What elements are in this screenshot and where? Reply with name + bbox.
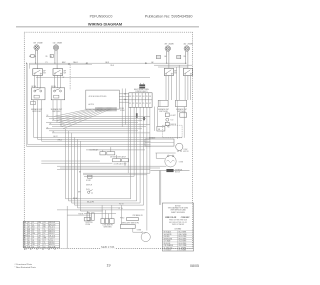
svg-text:SWITCH LF: SWITCH LF bbox=[52, 111, 60, 113]
infinite switch LF bbox=[53, 69, 63, 76]
svg-text:MOTOR: MOTOR bbox=[183, 151, 188, 153]
svg-text:RD: RD bbox=[46, 56, 48, 58]
wires bus to bottom left bbox=[66, 129, 81, 211]
svg-text:P6: P6 bbox=[149, 96, 151, 98]
svg-text:WH-10: WH-10 bbox=[58, 140, 63, 142]
parts table text bbox=[24, 221, 56, 248]
svg-text:P2: P2 bbox=[133, 103, 135, 105]
wire leads of LF bbox=[54, 50, 56, 54]
switch center B bbox=[107, 152, 115, 155]
terminal block dark bbox=[166, 169, 173, 172]
svg-text:RD-8: RD-8 bbox=[111, 65, 115, 67]
horizontal wires lower band bbox=[41, 161, 166, 176]
EOC terminal strip bbox=[129, 93, 152, 108]
svg-text:#40: #40 bbox=[53, 42, 56, 44]
svg-text:18: 18 bbox=[24, 242, 26, 244]
svg-text:RD RED: RD RED bbox=[164, 236, 171, 238]
svg-text:18: 18 bbox=[24, 238, 26, 240]
svg-text:# Functional Parts: # Functional Parts bbox=[15, 263, 34, 266]
svg-text:BK-8: BK-8 bbox=[106, 62, 110, 64]
wire leads of RF bbox=[185, 51, 187, 55]
door lock motor symbol above EOC bbox=[139, 84, 145, 88]
door plug component bbox=[88, 175, 93, 178]
svg-text:#39: #39 bbox=[164, 43, 167, 45]
svg-text:SWITCHES: SWITCHES bbox=[104, 227, 112, 229]
switch lower part RR bbox=[158, 100, 168, 106]
svg-text:RD-3 WIRE: RD-3 WIRE bbox=[179, 236, 187, 238]
relay box lower bbox=[120, 225, 135, 229]
svg-text:F2: F2 bbox=[54, 249, 56, 251]
svg-text:VT: VT bbox=[24, 240, 26, 242]
legend table bbox=[162, 231, 193, 251]
svg-text:12: 12 bbox=[32, 231, 34, 233]
switch lower part RF bbox=[175, 100, 186, 106]
svg-text:VT-9 WIRE: VT-9 WIRE bbox=[179, 250, 187, 252]
wires center mid-bottom bbox=[28, 144, 151, 146]
vertical wire into relay box lower bbox=[121, 205, 123, 224]
wire LF leads to bus bbox=[54, 54, 56, 63]
wire motor area bbox=[156, 152, 176, 154]
svg-text:P24 BK: P24 BK bbox=[79, 213, 84, 215]
svg-text:RD-14 M: RD-14 M bbox=[49, 246, 56, 248]
svg-text:YL-8 WIRE: YL-8 WIRE bbox=[179, 247, 187, 249]
wire L2 bus bbox=[36, 76, 150, 78]
svg-text:BK-14 P9: BK-14 P9 bbox=[87, 201, 94, 203]
connector verticals center switches bbox=[102, 150, 104, 152]
small box left of oven enclosure bbox=[157, 126, 165, 131]
wires from left switch assemblies to bus bbox=[34, 100, 62, 141]
wire down to frame bottom bbox=[66, 206, 68, 248]
svg-text:SWITCH: SWITCH bbox=[86, 185, 92, 187]
horizontal wires door region bbox=[57, 199, 145, 211]
svg-text:C9: C9 bbox=[36, 249, 38, 251]
connector plugs on harness wires bbox=[136, 113, 138, 118]
right inter-switch verticals bbox=[176, 67, 178, 100]
svg-text:WH-2 WIRE: WH-2 WIRE bbox=[179, 234, 187, 236]
drawing number SEB 1736 bbox=[100, 245, 115, 249]
svg-text:2100W: 2100W bbox=[169, 43, 175, 45]
svg-text:VT: VT bbox=[44, 244, 46, 246]
svg-text:YL: YL bbox=[38, 231, 40, 233]
svg-text:P4: P4 bbox=[139, 103, 141, 105]
svg-text:INF: INF bbox=[43, 70, 45, 72]
svg-text:GY-5 WIRE: GY-5 WIRE bbox=[179, 241, 187, 243]
svg-text:OVEN: OVEN bbox=[137, 229, 141, 231]
oven light lower circle bbox=[141, 232, 150, 241]
svg-text:VT: VT bbox=[38, 246, 40, 248]
svg-text:WH-14 B: WH-14 B bbox=[49, 224, 55, 226]
svg-text:YL: YL bbox=[44, 229, 46, 231]
svg-text:16: 16 bbox=[32, 246, 34, 248]
door jamb switches bbox=[87, 213, 90, 221]
svg-text:YL YELLOW: YL YELLOW bbox=[164, 247, 173, 249]
wire LR leads to bus bbox=[35, 54, 37, 63]
svg-text:BK: BK bbox=[47, 115, 49, 117]
relay box upper bbox=[127, 218, 139, 221]
svg-text:BR BROWN: BR BROWN bbox=[164, 238, 172, 240]
svg-text:INF: INF bbox=[64, 70, 66, 72]
svg-text:16: 16 bbox=[38, 244, 40, 246]
svg-text:16: 16 bbox=[44, 235, 46, 237]
svg-text:P1: P1 bbox=[133, 96, 135, 98]
svg-text:NOTICE:: NOTICE: bbox=[175, 205, 182, 207]
svg-text:OVEN LIGHT SWITCH P2: OVEN LIGHT SWITCH P2 bbox=[121, 222, 139, 224]
svg-text:12: 12 bbox=[32, 235, 34, 237]
oven enclosure outline bbox=[163, 125, 183, 138]
svg-text:(N.O.): (N.O.) bbox=[86, 189, 91, 191]
infinite switch LR bbox=[33, 69, 43, 76]
dashed feed wire to board bbox=[69, 64, 71, 90]
svg-text:BK: BK bbox=[29, 56, 31, 58]
svg-text:12: 12 bbox=[24, 231, 26, 233]
svg-text:WIRE COLOR: WIRE COLOR bbox=[165, 217, 177, 219]
svg-text:P5: P5 bbox=[143, 103, 145, 105]
svg-text:10: 10 bbox=[28, 240, 30, 242]
wire double drop to legend area bbox=[158, 171, 160, 205]
svg-text:10: 10 bbox=[24, 227, 26, 229]
svg-text:BK-P: BK-P bbox=[62, 62, 66, 64]
svg-text:SECOND LETTER COLOR: SECOND LETTER COLOR bbox=[169, 222, 187, 224]
schematic frame (dotted border) bbox=[24, 32, 192, 248]
svg-text:P6: P6 bbox=[146, 103, 148, 105]
svg-text:BK-16 K: BK-16 K bbox=[49, 242, 56, 244]
svg-text:P30: P30 bbox=[167, 127, 170, 129]
svg-text:RD: RD bbox=[184, 56, 186, 58]
infinite switch RF bbox=[183, 68, 192, 75]
svg-text:YL: YL bbox=[44, 242, 46, 244]
svg-text:18: 18 bbox=[32, 240, 34, 242]
oven lamp filament bbox=[167, 160, 175, 162]
svg-text:48 W HOUSE WITH BD: 48 W HOUSE WITH BD bbox=[89, 96, 108, 98]
svg-text:TOD: TOD bbox=[170, 120, 173, 122]
latch switch bank connector wires bbox=[101, 205, 103, 219]
svg-text:P12 BK-14 GY: P12 BK-14 GY bbox=[133, 215, 143, 217]
vertical wires left of EOC strip bbox=[121, 89, 123, 127]
svg-text:DOOR SW: DOOR SW bbox=[86, 222, 94, 224]
svg-text:P1: P1 bbox=[46, 62, 48, 64]
wires below right switches bbox=[165, 76, 167, 101]
wires from right switch lower parts down bbox=[154, 107, 156, 131]
svg-text:BK: BK bbox=[47, 127, 49, 129]
svg-text:BK: BK bbox=[53, 131, 55, 133]
svg-text:BK: BK bbox=[79, 172, 81, 174]
wires board to EOC strip bbox=[119, 94, 129, 102]
svg-text:BU-6 WIRE: BU-6 WIRE bbox=[179, 243, 187, 245]
wires left turning right at y137-141 bbox=[34, 137, 151, 141]
svg-text:WH: WH bbox=[34, 56, 36, 58]
wire oven enclosure to left bbox=[151, 137, 183, 139]
svg-text:P5: P5 bbox=[146, 96, 148, 98]
wiring parts table bbox=[23, 221, 59, 247]
svg-text:YL-12 H: YL-12 H bbox=[49, 238, 56, 240]
wire into oven light bbox=[133, 231, 142, 233]
wire L1 bus second segment bbox=[30, 64, 93, 66]
svg-text:ELECTRONIC OVEN: ELECTRONIC OVEN bbox=[134, 89, 149, 91]
svg-text:OVEN: OVEN bbox=[179, 161, 183, 163]
legend notice text bbox=[168, 205, 189, 214]
junction dots on bus bbox=[26, 63, 27, 64]
wire RR leads to switch bbox=[166, 55, 168, 63]
switch assembly box left LR bbox=[32, 88, 46, 100]
wire y215 with component bbox=[67, 214, 90, 216]
svg-text:PDFUNS0GC0: PDFUNS0GC0 bbox=[90, 14, 113, 18]
header rule bbox=[16, 26, 199, 28]
svg-text:10: 10 bbox=[28, 222, 30, 224]
svg-text:P1: P1 bbox=[129, 103, 131, 105]
svg-text:VT-14 J: VT-14 J bbox=[49, 240, 55, 242]
wires below left switches bbox=[34, 75, 36, 87]
svg-text:WH-12 L: WH-12 L bbox=[49, 244, 55, 246]
legend table text bbox=[164, 231, 187, 252]
svg-text:10: 10 bbox=[24, 244, 26, 246]
svg-text:LEGEND: LEGEND bbox=[175, 228, 182, 230]
svg-text:16: 16 bbox=[38, 229, 40, 231]
oven lamp upper bbox=[165, 156, 176, 167]
junction arrows on L1 bus bbox=[85, 62, 87, 64]
svg-text:10: 10 bbox=[24, 224, 26, 226]
door switch symbol bbox=[88, 191, 90, 193]
hi-limit thermostat bbox=[165, 113, 169, 117]
svg-text:B7: B7 bbox=[30, 249, 32, 251]
svg-text:P8 WH: P8 WH bbox=[86, 224, 91, 226]
wire RF leads to switch bbox=[185, 55, 187, 64]
svg-text:LOCK MOTOR: LOCK MOTOR bbox=[102, 225, 113, 227]
right bus segments bbox=[154, 64, 192, 66]
svg-text:08/05: 08/05 bbox=[190, 264, 199, 268]
wire left drop from bus bbox=[26, 63, 28, 146]
svg-text:VT: VT bbox=[32, 238, 34, 240]
parts table footer row bbox=[24, 248, 56, 251]
svg-text:WH WHITE: WH WHITE bbox=[164, 234, 172, 236]
surface element LR bbox=[34, 45, 39, 50]
svg-text:P7 TN: P7 TN bbox=[119, 208, 123, 210]
svg-text:SHEET 5995434580: SHEET 5995434580 bbox=[171, 212, 185, 214]
wire to terminal block bbox=[151, 170, 167, 172]
svg-text:* Non-Illustrated Parts: * Non-Illustrated Parts bbox=[15, 266, 37, 269]
surface element LF bbox=[53, 45, 58, 50]
wire leads of RR bbox=[166, 51, 168, 55]
svg-text:#39: #39 bbox=[33, 42, 36, 44]
svg-text:YL: YL bbox=[38, 227, 40, 229]
svg-text:OR-10 G: OR-10 G bbox=[49, 235, 56, 237]
svg-text:CONV: CONV bbox=[183, 149, 187, 151]
svg-text:VT VIOLET: VT VIOLET bbox=[164, 250, 172, 252]
svg-text:BR: BR bbox=[158, 129, 160, 131]
svg-text:12: 12 bbox=[32, 222, 34, 224]
svg-text:RD BK: RD BK bbox=[73, 198, 77, 200]
receptacle block RF bbox=[177, 55, 181, 58]
bake element block bbox=[145, 139, 174, 146]
legend box bbox=[162, 203, 193, 251]
svg-text:BK-12: BK-12 bbox=[54, 136, 58, 138]
svg-text:GY-16 D: GY-16 D bbox=[49, 229, 56, 231]
switch center A bbox=[100, 152, 106, 155]
svg-text:BK: BK bbox=[165, 56, 167, 58]
svg-text:16: 16 bbox=[28, 244, 30, 246]
wire harness from EOC strip bbox=[128, 107, 150, 230]
receptacle block RR bbox=[156, 55, 160, 58]
svg-text:WH: WH bbox=[78, 192, 80, 194]
svg-text:BR-4 WIRE: BR-4 WIRE bbox=[179, 238, 187, 240]
receptacle block LF bbox=[50, 55, 53, 58]
oven control board U1 bbox=[86, 90, 120, 109]
svg-text:2700W: 2700W bbox=[188, 43, 194, 45]
svg-text:OR-7 WIRE: OR-7 WIRE bbox=[179, 245, 187, 247]
svg-text:D4: D4 bbox=[42, 249, 44, 251]
control board connector comb pins bbox=[96, 107, 117, 111]
svg-text:SWITCH LR: SWITCH LR bbox=[32, 111, 41, 113]
svg-text:WIRING DIAGRAM: WIRING DIAGRAM bbox=[88, 21, 122, 26]
junction open circle on bus bbox=[68, 63, 69, 64]
svg-text:18: 18 bbox=[28, 227, 30, 229]
svg-text:Publication No: 5995434580: Publication No: 5995434580 bbox=[145, 14, 193, 18]
svg-text:BK: BK bbox=[50, 123, 52, 125]
infinite switch RR bbox=[164, 68, 173, 75]
switch center C bbox=[113, 159, 121, 162]
component right of chain bbox=[180, 113, 187, 117]
wire y213 bbox=[84, 213, 116, 215]
svg-text:BK-1 WIRE: BK-1 WIRE bbox=[179, 232, 187, 234]
switch assembly box left LF bbox=[51, 88, 64, 100]
oven sensor bbox=[165, 122, 169, 125]
surface element RR bbox=[165, 46, 170, 51]
svg-text:BK: BK bbox=[152, 62, 154, 64]
connector under assembly LR bbox=[31, 102, 36, 105]
svg-text:BR-12 E: BR-12 E bbox=[49, 231, 55, 233]
svg-text:BLOCK: BLOCK bbox=[175, 172, 180, 174]
svg-text:SEB 1736: SEB 1736 bbox=[101, 245, 115, 249]
svg-text:E8: E8 bbox=[48, 249, 50, 251]
svg-text:P9 RD: P9 RD bbox=[120, 217, 124, 219]
svg-text:BU BLUE: BU BLUE bbox=[164, 243, 170, 245]
receptacle block LR bbox=[31, 55, 34, 58]
svg-text:14: 14 bbox=[24, 233, 26, 235]
svg-text:14: 14 bbox=[28, 238, 30, 240]
svg-text:BK: BK bbox=[53, 119, 55, 121]
svg-text:14: 14 bbox=[32, 224, 34, 226]
wire L1 bus bbox=[30, 62, 187, 64]
wire fan diagonals under control board bbox=[54, 109, 111, 129]
svg-text:12: 12 bbox=[24, 229, 26, 231]
svg-text:2700W: 2700W bbox=[57, 42, 63, 44]
svg-text:P4: P4 bbox=[143, 96, 145, 98]
svg-text:BK: BK bbox=[50, 56, 52, 58]
thermal fuse bbox=[166, 118, 169, 121]
switch center D bbox=[122, 159, 129, 162]
svg-text:P3: P3 bbox=[136, 103, 138, 105]
svg-text:10: 10 bbox=[44, 246, 46, 248]
svg-text:VT: VT bbox=[44, 240, 46, 242]
svg-text:RD-10 C: RD-10 C bbox=[49, 227, 56, 229]
svg-text:#40: #40 bbox=[183, 43, 186, 45]
EOC strip cell text bbox=[129, 96, 151, 105]
svg-text:P2: P2 bbox=[136, 96, 138, 98]
wire leads of LR bbox=[35, 50, 37, 54]
surface element RF bbox=[184, 46, 189, 51]
svg-text:P3: P3 bbox=[139, 96, 141, 98]
svg-text:BK WH: BK WH bbox=[32, 86, 37, 88]
svg-text:2700W: 2700W bbox=[37, 42, 43, 44]
svg-text:14: 14 bbox=[44, 233, 46, 235]
wire code marks on center bus bbox=[47, 115, 55, 133]
svg-text:BK WH: BK WH bbox=[51, 86, 56, 88]
svg-text:19: 19 bbox=[107, 264, 111, 268]
svg-text:P0: P0 bbox=[129, 96, 131, 98]
svg-text:WH-L1: WH-L1 bbox=[73, 62, 78, 64]
svg-text:A4 P10: A4 P10 bbox=[89, 103, 95, 106]
convection motor M1 bbox=[176, 143, 183, 150]
svg-text:FIRST LETTER WIRE SIZE: FIRST LETTER WIRE SIZE bbox=[169, 220, 187, 222]
svg-text:CODE KEY: CODE KEY bbox=[181, 217, 191, 219]
svg-text:HI-LIMIT: HI-LIMIT bbox=[170, 115, 176, 117]
svg-text:10: 10 bbox=[38, 224, 40, 226]
latch switch bank bbox=[101, 219, 105, 224]
svg-text:YL: YL bbox=[28, 224, 30, 226]
legend key sub rows bbox=[169, 220, 187, 226]
svg-text:P7: P7 bbox=[149, 103, 151, 105]
svg-text:BU-14 F: BU-14 F bbox=[49, 233, 55, 235]
horizontal wire bus center bbox=[46, 116, 150, 132]
